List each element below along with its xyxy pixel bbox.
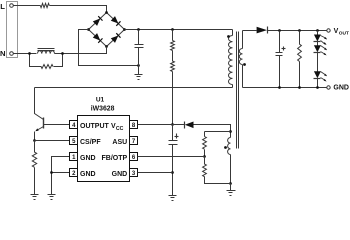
svg-text:OUTPUT: OUTPUT <box>80 123 110 130</box>
svg-text:iW3628: iW3628 <box>91 106 115 113</box>
svg-text:OUT: OUT <box>339 30 349 36</box>
svg-text:N: N <box>0 49 6 58</box>
svg-text:GND: GND <box>333 85 349 92</box>
svg-text:L: L <box>0 2 5 11</box>
svg-text:GND: GND <box>112 171 128 178</box>
svg-text:CC: CC <box>116 126 124 132</box>
svg-text:GND: GND <box>80 171 96 178</box>
svg-text:ASU: ASU <box>112 139 127 146</box>
svg-text:CS/PF: CS/PF <box>80 139 101 146</box>
svg-text:FB/OTP: FB/OTP <box>102 155 128 162</box>
svg-text:GND: GND <box>80 155 96 162</box>
svg-text:U1: U1 <box>96 96 105 103</box>
